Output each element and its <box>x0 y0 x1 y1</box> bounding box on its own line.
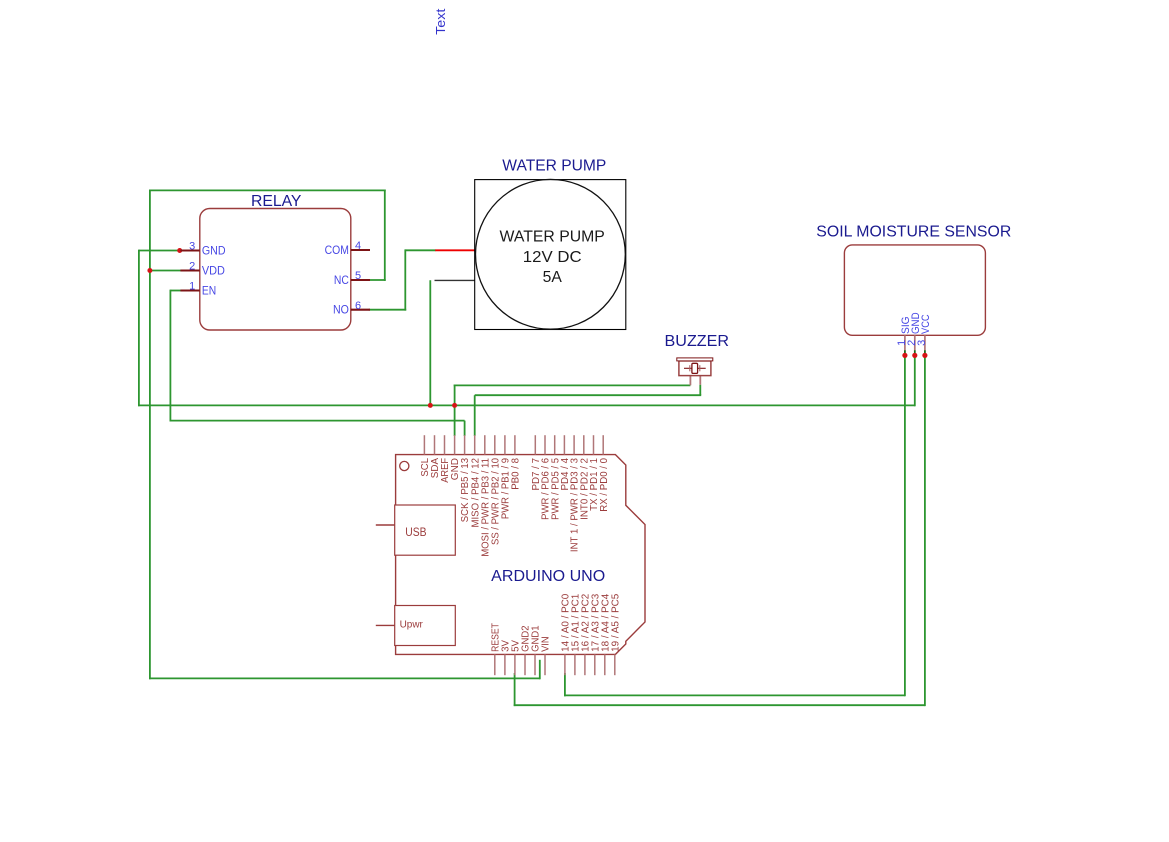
svg-text:RELAY: RELAY <box>251 193 302 210</box>
svg-text:12V DC: 12V DC <box>523 249 582 266</box>
svg-text:5: 5 <box>355 270 361 282</box>
svg-text:ARDUINO UNO: ARDUINO UNO <box>491 568 605 585</box>
svg-text:4: 4 <box>355 240 361 252</box>
svg-text:6: 6 <box>355 300 361 312</box>
svg-text:WATER PUMP: WATER PUMP <box>500 229 605 246</box>
svg-text:1: 1 <box>189 281 195 293</box>
svg-text:3: 3 <box>189 241 195 253</box>
svg-text:RX / PD0 / 0: RX / PD0 / 0 <box>599 458 610 512</box>
svg-text:PB0 / 8: PB0 / 8 <box>511 458 522 490</box>
svg-text:19 / A5 / PC5: 19 / A5 / PC5 <box>610 593 621 651</box>
svg-text:5A: 5A <box>543 269 563 286</box>
svg-text:SOIL MOISTURE SENSOR: SOIL MOISTURE SENSOR <box>816 224 1011 241</box>
svg-text:WATER PUMP: WATER PUMP <box>502 157 606 174</box>
svg-text:BUZZER: BUZZER <box>665 333 730 350</box>
svg-text:Text: Text <box>433 8 448 35</box>
svg-text:NC: NC <box>334 275 349 287</box>
svg-text:NO: NO <box>333 304 349 316</box>
svg-text:COM: COM <box>325 245 349 257</box>
svg-text:VCC: VCC <box>920 314 932 334</box>
svg-text:VDD: VDD <box>202 265 225 277</box>
svg-text:EN: EN <box>202 285 216 297</box>
svg-text:2: 2 <box>189 261 195 273</box>
svg-text:VIN: VIN <box>541 636 552 652</box>
svg-text:USB: USB <box>405 527 427 539</box>
svg-text:Upwr: Upwr <box>400 618 424 630</box>
svg-text:3: 3 <box>916 340 928 346</box>
svg-text:GND: GND <box>202 245 226 257</box>
